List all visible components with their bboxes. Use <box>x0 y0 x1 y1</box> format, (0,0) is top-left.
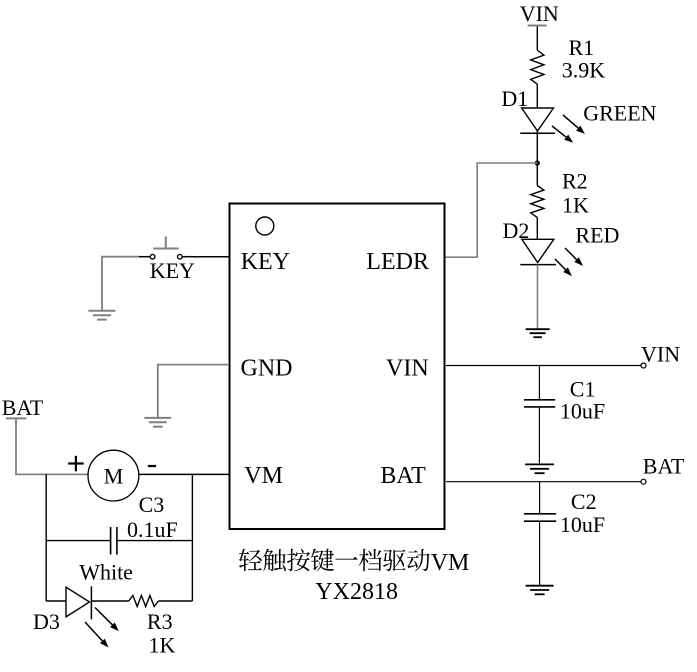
ground (D2) <box>526 328 550 330</box>
ground (C2) <box>526 585 554 587</box>
button contact circles <box>150 254 155 259</box>
junction node <box>535 160 540 165</box>
svg-text:C2: C2 <box>571 489 597 514</box>
motor M1 circle <box>88 450 139 501</box>
svg-text:BAT: BAT <box>643 453 685 478</box>
svg-text:3.9K: 3.9K <box>562 58 606 83</box>
wire to D3 anode <box>46 600 66 602</box>
svg-text:1K: 1K <box>562 193 589 218</box>
svg-text:GND: GND <box>241 356 293 382</box>
IC U1 YX2818 body <box>230 204 445 530</box>
wire R3 to loop <box>158 600 192 602</box>
svg-text:D1: D1 <box>501 86 528 111</box>
capacitor C2 plates <box>524 513 556 515</box>
svg-text:10uF: 10uF <box>560 399 605 424</box>
LED D2 cathode bar <box>520 264 556 266</box>
loop left vertical wire <box>45 474 47 601</box>
svg-text:RED: RED <box>575 222 619 247</box>
pin-1 marker circle <box>256 217 274 235</box>
minus sign <box>148 465 156 467</box>
svg-text:R3: R3 <box>147 609 173 634</box>
capacitor C3 plates <box>110 527 112 555</box>
LEDR net wire junction-to-pin <box>446 163 538 257</box>
VIN net tick <box>528 25 547 27</box>
svg-text:YX2818: YX2818 <box>315 579 398 605</box>
svg-text:VIN: VIN <box>386 356 429 382</box>
plus sign <box>68 462 84 464</box>
ground (KEY) <box>88 310 115 312</box>
capacitor C1 plates <box>524 399 555 401</box>
wire VIN pin to terminal <box>446 365 641 367</box>
svg-text:10uF: 10uF <box>560 512 605 537</box>
wire BAT to motor <box>16 419 46 474</box>
ground (GND pin) <box>144 417 171 419</box>
svg-text:VIN: VIN <box>641 341 680 366</box>
wire junction to R2 <box>536 163 538 186</box>
wire D3 to R3 <box>91 600 128 602</box>
svg-text:0.1uF: 0.1uF <box>127 517 178 542</box>
caption Chinese: 轻触按键一档驱动 <box>239 549 262 571</box>
VIN terminal circle <box>641 363 646 368</box>
svg-text:1K: 1K <box>149 632 176 657</box>
LED D1 arrows <box>563 115 578 128</box>
wire VIN to R1 <box>536 27 538 51</box>
wire button to ground <box>102 257 139 311</box>
svg-text:KEY: KEY <box>150 258 195 283</box>
wire R2 to D2 <box>536 218 538 240</box>
svg-text:GREEN: GREEN <box>583 101 656 126</box>
svg-text:R1: R1 <box>569 35 595 60</box>
svg-text:BAT: BAT <box>2 395 44 420</box>
BAT terminal circle <box>641 479 646 484</box>
LED D2 arrows <box>565 248 577 260</box>
svg-text:VIN: VIN <box>520 1 559 26</box>
wire C3 left <box>46 540 110 542</box>
wire C2 to ground <box>539 521 541 586</box>
LED D3 triangle <box>66 587 90 617</box>
svg-text:VM: VM <box>431 550 470 576</box>
wire motor to VM pin <box>139 473 229 475</box>
svg-text:R2: R2 <box>562 169 588 194</box>
button contact stubs <box>139 256 150 258</box>
resistor R1 <box>531 50 544 84</box>
svg-text:BAT: BAT <box>380 463 426 489</box>
LED D3 cathode bar <box>90 586 92 619</box>
wire BAT to C2 <box>539 482 541 514</box>
loop right vertical wire <box>191 474 193 601</box>
wire GND pin to ground <box>158 365 229 418</box>
svg-text:M: M <box>104 463 124 488</box>
svg-text:KEY: KEY <box>241 249 290 275</box>
LED D1 triangle <box>522 108 554 131</box>
wire BAT pin to terminal <box>446 481 641 483</box>
svg-text:White: White <box>79 560 133 585</box>
ground (C1) <box>525 463 554 465</box>
svg-text:D3: D3 <box>33 609 60 634</box>
resistor R2 <box>531 186 544 218</box>
push button S1 actuator <box>165 237 167 249</box>
wire D2 to ground <box>537 265 539 330</box>
svg-text:LEDR: LEDR <box>366 249 429 275</box>
LED D3 arrows <box>95 608 112 625</box>
wire D1 to junction <box>536 131 538 163</box>
wire C3 right <box>117 540 192 542</box>
wire VIN to C1 <box>538 366 540 400</box>
wire C1 to ground <box>538 407 540 465</box>
BAT net tick <box>6 417 27 419</box>
svg-text:C3: C3 <box>139 492 165 517</box>
wire to motor + terminal <box>46 473 88 475</box>
LED D2 triangle <box>522 239 554 262</box>
svg-text:VM: VM <box>244 463 283 489</box>
wire button to KEY pin <box>193 256 229 258</box>
LED D1 cathode bar <box>520 132 555 134</box>
wire R1 to D1 <box>536 84 538 108</box>
resistor R3 <box>129 596 159 607</box>
